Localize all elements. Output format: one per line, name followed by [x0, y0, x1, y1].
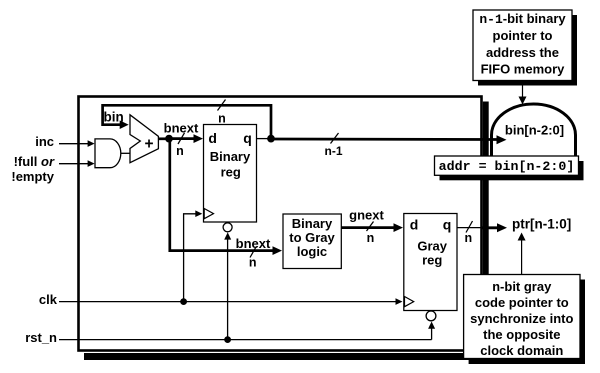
svg-text:q: q	[243, 130, 252, 146]
wire rst to gray reg bubble	[431, 328, 433, 340]
svg-text:clk: clk	[39, 292, 58, 307]
svg-text:n-1: n-1	[325, 144, 343, 158]
svg-text:bnext: bnext	[236, 236, 271, 251]
binary reg reset bubble	[223, 223, 232, 232]
node rst junction dot	[224, 336, 231, 343]
callout top arrow down to dome	[522, 86, 524, 99]
wire gray q to ptr	[457, 227, 481, 229]
adder U2	[130, 115, 158, 163]
binary reg clock triangle	[204, 209, 213, 219]
and-gate U1	[95, 139, 121, 168]
svg-text:+: +	[144, 135, 153, 152]
svg-text:Gray: Gray	[417, 239, 447, 254]
main enclosure shadow bottom	[84, 353, 489, 360]
svg-text:to Gray: to Gray	[289, 230, 335, 245]
svg-text:bnext: bnext	[164, 121, 199, 136]
svg-text:the opposite: the opposite	[483, 327, 560, 342]
svg-text:!full or: !full or	[14, 154, 55, 169]
svg-text:n-1-bit binary: n-1-bit binary	[479, 11, 566, 27]
svg-text:q: q	[443, 217, 452, 233]
callout top shadow	[478, 15, 577, 86]
svg-text:n: n	[218, 112, 226, 126]
svg-text:address the: address the	[486, 45, 559, 60]
svg-text:d: d	[208, 130, 217, 146]
svg-text:logic: logic	[297, 244, 327, 259]
svg-text:n-bit gray: n-bit gray	[492, 279, 552, 295]
register Gray reg	[404, 214, 457, 311]
bus width slash n on bnext	[178, 133, 185, 144]
wire rst branch to binary reg bubble	[227, 238, 229, 340]
svg-text:!empty: !empty	[11, 169, 54, 184]
wire inc	[59, 143, 88, 145]
node bnext junction dot	[165, 135, 173, 143]
svg-text:addr = bin[n-2:0]: addr = bin[n-2:0]	[439, 159, 575, 174]
main enclosure box	[79, 97, 482, 351]
svg-text:FIFO memory: FIFO memory	[481, 62, 566, 77]
bus width slash n on feedback	[218, 100, 226, 111]
gray reg reset bubble	[426, 311, 436, 321]
addr box	[435, 156, 579, 175]
block Binary to Gray logic	[283, 214, 341, 269]
svg-text:ptr[n-1:0]: ptr[n-1:0]	[512, 217, 571, 232]
svg-text:rst_n: rst_n	[25, 330, 57, 345]
wire clk branch to binary reg	[184, 214, 196, 302]
svg-text:inc: inc	[35, 134, 54, 149]
wire adder output to node bnext	[158, 137, 169, 140]
svg-text:bin[n-2:0]: bin[n-2:0]	[505, 123, 564, 138]
callout bottom shadow	[469, 280, 585, 365]
svg-text:bin: bin	[104, 110, 124, 125]
gray reg clock triangle	[405, 297, 414, 307]
svg-text:Binary: Binary	[292, 216, 333, 231]
svg-text:n: n	[464, 231, 472, 245]
svg-text:reg: reg	[422, 253, 442, 268]
wire bnext down to gray logic	[170, 139, 274, 251]
main enclosure shadow right	[483, 102, 489, 361]
svg-text:synchronize into: synchronize into	[470, 311, 573, 326]
addr box shadow	[440, 161, 584, 180]
bus width slash n-1	[331, 133, 339, 144]
callout bottom box: n-bit gray code pointer	[464, 275, 580, 359]
svg-text:pointer to: pointer to	[493, 28, 553, 43]
svg-text:n: n	[176, 144, 184, 158]
wire bin feedback loop	[103, 105, 271, 138]
svg-text:clock domain: clock domain	[480, 343, 563, 358]
node clk junction dot	[180, 298, 187, 305]
wire q output thin	[257, 138, 272, 140]
svg-text:n: n	[367, 231, 375, 245]
svg-text:d: d	[410, 217, 419, 233]
wire gnext	[341, 226, 394, 229]
bus width slash n gnext	[367, 222, 374, 232]
svg-text:reg: reg	[221, 165, 241, 180]
callout bottom arrow up to ptr	[521, 239, 523, 275]
node q junction dot	[267, 135, 275, 143]
callout top box: n-1-bit binary pointer	[473, 10, 572, 81]
wire and-to-adder	[121, 152, 131, 154]
bus bin[n-2:0] to dome	[271, 138, 498, 141]
wire bnext to binary reg d	[169, 137, 195, 140]
bus width slash n lower bnext	[250, 247, 256, 258]
register Binary reg	[204, 125, 257, 223]
svg-text:Binary: Binary	[210, 149, 251, 164]
wire !full/!empty	[59, 163, 88, 165]
svg-text:n: n	[249, 256, 257, 270]
svg-text:code pointer to: code pointer to	[475, 295, 569, 310]
svg-text:gnext: gnext	[349, 208, 384, 223]
bus width slash n gray q	[466, 221, 473, 233]
memory dome	[492, 104, 576, 157]
